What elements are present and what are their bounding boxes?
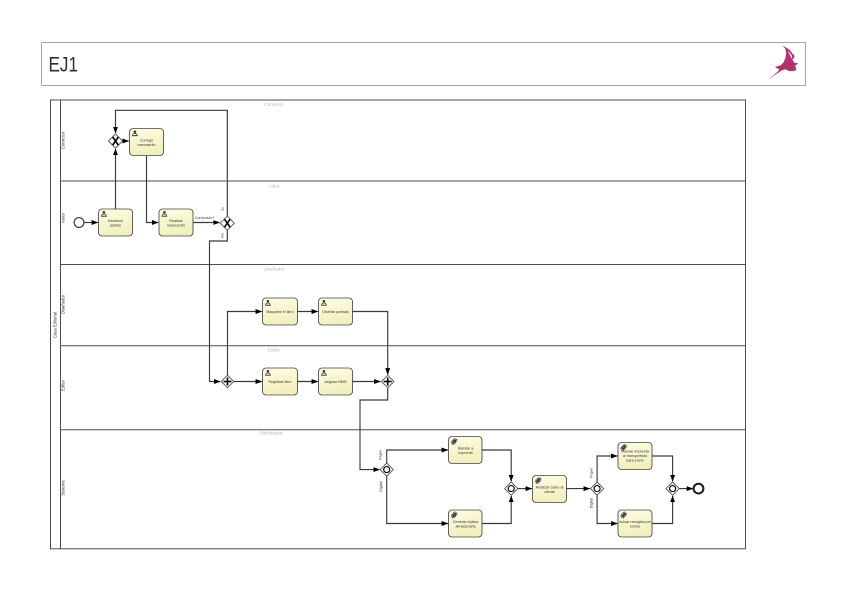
pool border (51, 100, 746, 549)
wire T7 right to G4 left (353, 381, 381, 383)
svg-text:Sistema: Sistema (61, 480, 66, 496)
task T8 Mandar a imprenta (service) (449, 437, 483, 464)
task T9 Generar réplica almacenarla (service) (449, 510, 483, 537)
wire loop G2 top to G1 top (116, 110, 228, 216)
task T6 Registrar libro (263, 368, 298, 395)
wire G4 bottom to G5 (360, 388, 388, 470)
gateway G2 XOR (220, 216, 234, 230)
svg-text:Digital: Digital (379, 481, 383, 492)
task T10 Realizar cobro al cliente (service) (533, 476, 567, 503)
wire G2 bottom to G3 (No branch) (210, 230, 228, 381)
gateway G7 inclusive (591, 482, 604, 495)
svg-text:Papel: Papel (379, 450, 383, 460)
wire G7 bottom to T12 (597, 495, 617, 523)
wire T1 bottom to T3 left (147, 156, 159, 223)
task T7 Asignar ISBN (319, 368, 353, 395)
task T12 Avisar recogida por correo (service) (618, 510, 652, 537)
gateway G4 parallel (381, 375, 394, 388)
svg-text:Diseñador: Diseñador (61, 294, 66, 314)
wire T6 to T7 (298, 381, 318, 383)
svg-text:pedido: pedido (110, 224, 121, 228)
svg-text:manuscrito: manuscrito (137, 143, 155, 147)
svg-text:Corrector: Corrector (264, 102, 284, 107)
wire T2 top to G1 bottom (115, 149, 117, 209)
end event (694, 484, 704, 494)
task T4 Maquetar el libro (263, 298, 298, 325)
task T2 Introducir pedido (99, 209, 133, 236)
svg-text:Autor: Autor (61, 212, 66, 223)
svg-text:al transportista: al transportista (623, 454, 648, 458)
svg-text:Maquetar el libro: Maquetar el libro (266, 310, 293, 314)
svg-text:correo: correo (630, 525, 640, 529)
svg-text:Editor: Editor (268, 348, 280, 353)
task T5 Diseñar portada (319, 298, 353, 325)
wire T8 right to G6 top (482, 450, 511, 481)
svg-text:Casa Editorial: Casa Editorial (53, 312, 58, 338)
svg-text:Generar réplica: Generar réplica (453, 520, 479, 524)
gateway G1 XOR (108, 134, 122, 148)
svg-text:Sí: Sí (221, 207, 225, 210)
svg-text:Introducir: Introducir (108, 219, 124, 223)
svg-text:Mandar imprenta: Mandar imprenta (621, 450, 650, 454)
svg-text:Digital: Digital (589, 498, 593, 509)
gateway G5 inclusive (380, 463, 393, 476)
lane separator 1/2 (61, 180, 746, 182)
wire start event to T2 (84, 222, 98, 224)
wire G6 right to T10 (518, 488, 532, 490)
svg-text:Papel: Papel (589, 468, 593, 478)
gateway G8 inclusive (666, 482, 679, 495)
task T3 Realizar manuscrito (159, 209, 193, 236)
wire G8 right to end event (679, 488, 693, 490)
wire G3 top to T4 (228, 312, 262, 376)
task T11 Mandar imprenta al transportista para envío (service) (618, 443, 652, 470)
svg-text:para envío: para envío (626, 459, 643, 463)
svg-text:Mandar a: Mandar a (458, 447, 475, 451)
wire T12 right to G8 bottom (652, 496, 673, 524)
svg-text:Corregir: Corregir (140, 139, 154, 143)
svg-text:Registrar libro: Registrar libro (269, 380, 292, 384)
bizagi antelope logo (768, 46, 798, 80)
header box (42, 43, 806, 86)
svg-text:Distribuidor: Distribuidor (259, 431, 283, 436)
svg-text:Asignar ISBN: Asignar ISBN (324, 380, 346, 384)
task T1 Corregir manuscrito (130, 129, 164, 156)
svg-text:almacenarla: almacenarla (455, 525, 476, 529)
lane separator 2/3 (61, 264, 746, 266)
svg-text:Avisar recogida por: Avisar recogida por (619, 520, 651, 524)
start event (74, 218, 84, 228)
svg-text:imprenta: imprenta (458, 451, 473, 455)
gateway G6 inclusive (505, 482, 518, 495)
svg-text:Diseñador: Diseñador (264, 267, 285, 272)
wire G1 right to T1 (122, 140, 128, 142)
svg-text:Editor: Editor (61, 379, 66, 391)
wire T11 right to G8 top (652, 456, 673, 481)
gateway G3 parallel (221, 375, 234, 388)
wire T9 right to G6 bottom (482, 496, 511, 524)
wire G5 top to T8 (387, 450, 448, 463)
svg-text:Realizar cobro al: Realizar cobro al (536, 486, 564, 490)
wire G5 bottom to T9 (387, 476, 448, 523)
svg-text:Diseñar portada: Diseñar portada (322, 310, 349, 314)
svg-text:Corrección?: Corrección? (195, 216, 214, 220)
wire T4 to T5 (298, 311, 318, 313)
svg-text:Corrector: Corrector (61, 131, 66, 149)
pool name strip divider (60, 100, 62, 549)
lane separator 4/5 (61, 429, 746, 431)
svg-text:manuscrito: manuscrito (167, 224, 185, 228)
lane separator 3/4 (61, 345, 746, 347)
wire T5 right to G4 top (353, 312, 388, 375)
wire T10 right to G7 (567, 488, 590, 490)
svg-text:cliente: cliente (544, 490, 555, 494)
wire G7 top to T11 (597, 456, 617, 482)
svg-text:Realizar: Realizar (169, 219, 183, 223)
wire T3 right to G2 (193, 222, 220, 224)
svg-text:EJ1: EJ1 (49, 53, 79, 77)
svg-text:No: No (221, 233, 225, 238)
svg-text:Autor: Autor (269, 184, 280, 189)
wire G3 right to T6 (234, 381, 262, 383)
